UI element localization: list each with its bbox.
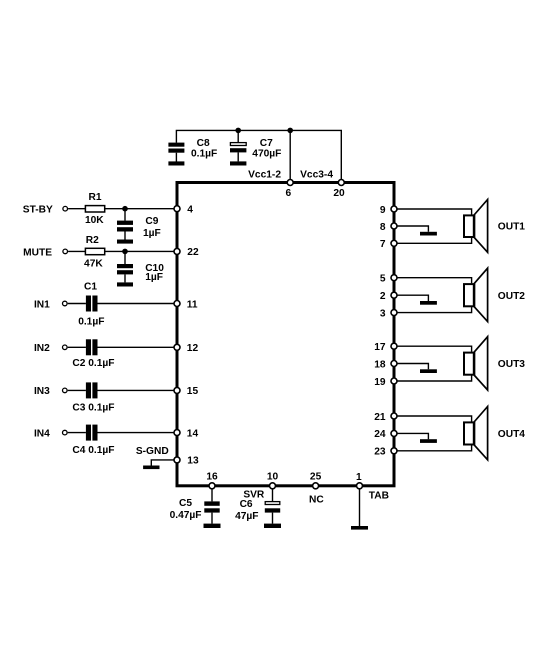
pin 15 (174, 387, 180, 393)
terminal ST-BY (63, 206, 68, 211)
svg-text:OUT4: OUT4 (498, 429, 526, 440)
svg-text:16: 16 (206, 472, 218, 483)
svg-text:2: 2 (380, 291, 386, 302)
wire pin 13 to signal ground (151, 460, 177, 466)
svg-text:470µF: 470µF (252, 149, 281, 160)
wire pin 24 to ground (394, 433, 428, 439)
svg-text:24: 24 (374, 429, 386, 440)
pin 24 (391, 430, 397, 436)
wire pin 9 to speaker top (394, 209, 472, 215)
svg-text:25: 25 (310, 472, 322, 483)
svg-text:18: 18 (374, 359, 386, 370)
wire ST-BY to R1 (68, 208, 85, 210)
capacitor C4 0.1uF (68, 425, 98, 441)
wire: Vcc top rail (176, 130, 341, 182)
svg-text:1µF: 1µF (145, 272, 163, 283)
pin 17 (391, 343, 397, 349)
svg-text:3: 3 (380, 308, 386, 319)
pin 19 (391, 378, 397, 384)
wire R2 to pin 22 (105, 250, 177, 252)
svg-text:C1: C1 (84, 282, 97, 293)
svg-text:TAB: TAB (369, 490, 389, 501)
pin 14 (174, 430, 180, 436)
capacitor C10 1uF (117, 251, 133, 282)
capacitor C1 0.1uF (68, 296, 98, 312)
speaker OUT2 driver (464, 284, 474, 306)
pin 12 (174, 344, 180, 350)
svg-text:ST-BY: ST-BY (23, 204, 53, 215)
svg-text:IN4: IN4 (34, 428, 50, 439)
svg-text:C4 0.1µF: C4 0.1µF (72, 445, 114, 456)
junction dot at pin-6 branch (287, 128, 293, 134)
resistor R1 10K (85, 206, 104, 212)
wire pin 8 to ground (394, 226, 428, 232)
svg-text:5: 5 (380, 274, 386, 285)
pin 13 (174, 457, 180, 463)
svg-text:47µF: 47µF (235, 511, 258, 522)
svg-text:Vcc1-2: Vcc1-2 (248, 170, 281, 181)
pin 6 (287, 180, 293, 186)
svg-text:22: 22 (187, 247, 199, 258)
svg-text:NC: NC (309, 495, 324, 506)
ground bar of C6 (264, 524, 281, 528)
IC U1 body (177, 183, 394, 486)
svg-text:R2: R2 (86, 235, 99, 246)
capacitor C3 0.1uF (68, 382, 98, 398)
junction node at C9 (122, 206, 128, 212)
resistor R2 47K (85, 248, 104, 254)
svg-text:21: 21 (374, 412, 386, 423)
svg-text:20: 20 (333, 188, 345, 199)
ground bar of C8 (168, 161, 184, 165)
svg-text:9: 9 (380, 205, 386, 216)
wire: C7 stub (237, 130, 239, 142)
pin 20 (338, 180, 344, 186)
svg-text:C2 0.1µF: C2 0.1µF (72, 358, 114, 369)
svg-text:C7: C7 (260, 138, 273, 149)
svg-text:10K: 10K (85, 215, 104, 226)
svg-text:11: 11 (187, 299, 198, 310)
wire pin 7 to speaker bottom (394, 238, 472, 244)
wire pin 5 to speaker top (394, 278, 472, 284)
speaker OUT1 cone (475, 200, 488, 253)
pin 11 (174, 301, 180, 307)
svg-text:47K: 47K (84, 259, 103, 270)
wire pin 23 to speaker bottom (394, 445, 472, 451)
terminal MUTE (63, 249, 68, 254)
capacitor C7 470uF electrolytic (230, 143, 246, 162)
wire C3 to pin 15 (98, 389, 178, 391)
pin 3 (391, 310, 397, 316)
svg-text:C5: C5 (179, 498, 192, 509)
wire pin 19 to speaker bottom (394, 376, 472, 382)
capacitor C6 47uF electrolytic (265, 486, 280, 524)
pin 9 (391, 206, 397, 212)
svg-text:C6: C6 (240, 499, 253, 510)
wire pin 1 to ground (359, 486, 361, 526)
capacitor C5 0.47uF (204, 486, 219, 524)
ground bar OUT2 (420, 301, 437, 305)
ground bar of C10 (117, 282, 133, 286)
ground bar OUT4 (420, 439, 437, 443)
svg-text:IN1: IN1 (34, 299, 50, 310)
speaker OUT3 driver (464, 353, 474, 375)
terminal IN1 (63, 301, 68, 306)
pin 4 (174, 206, 180, 212)
svg-text:IN2: IN2 (34, 343, 50, 354)
svg-text:OUT1: OUT1 (498, 222, 526, 233)
wire C4 to pin 14 (98, 432, 178, 434)
ground bar of C5 (204, 524, 221, 528)
capacitor C9 1uF (117, 209, 133, 240)
svg-text:MUTE: MUTE (23, 247, 52, 258)
wire pin 18 to ground (394, 364, 428, 370)
svg-text:1µF: 1µF (143, 228, 161, 239)
terminal IN3 (63, 388, 68, 393)
pin 22 (174, 248, 180, 254)
junction node at C10 (122, 249, 128, 255)
svg-text:7: 7 (380, 239, 386, 250)
wire C1 to pin 11 (98, 303, 178, 305)
speaker OUT1 driver (464, 215, 474, 237)
svg-text:C9: C9 (145, 216, 158, 227)
svg-text:8: 8 (380, 222, 386, 233)
ground bar S-GND (143, 466, 159, 470)
pin 5 (391, 275, 397, 281)
svg-text:C3 0.1µF: C3 0.1µF (72, 402, 114, 413)
capacitor C2 0.1uF (68, 339, 98, 355)
wire pin 2 to ground (394, 295, 428, 301)
ground bar TAB (351, 526, 368, 530)
svg-text:0.47µF: 0.47µF (170, 510, 202, 521)
wire C2 to pin 12 (98, 346, 178, 348)
svg-text:23: 23 (374, 447, 386, 458)
svg-text:0.1µF: 0.1µF (191, 148, 217, 159)
svg-text:OUT3: OUT3 (498, 359, 526, 370)
pin 25 NC (313, 483, 319, 489)
pin 7 (391, 240, 397, 246)
svg-text:14: 14 (187, 428, 199, 439)
wire MUTE to R2 (68, 250, 85, 252)
svg-text:OUT2: OUT2 (498, 291, 526, 302)
pin 18 (391, 361, 397, 367)
wire pin 21 to speaker top (394, 416, 472, 422)
svg-text:6: 6 (285, 188, 291, 199)
svg-text:4: 4 (187, 204, 193, 215)
svg-text:Vcc3-4: Vcc3-4 (300, 170, 333, 181)
pin 2 (391, 292, 397, 298)
svg-text:12: 12 (187, 343, 199, 354)
svg-text:0.1µF: 0.1µF (78, 316, 104, 327)
capacitor C8 0.1uF (168, 143, 184, 162)
svg-text:10: 10 (267, 472, 279, 483)
pin 21 (391, 413, 397, 419)
svg-text:15: 15 (187, 386, 199, 397)
terminal IN2 (63, 345, 68, 350)
junction dot at C7 on rail (235, 128, 241, 134)
svg-text:S-GND: S-GND (136, 446, 169, 457)
wire: branch to pin 6 (289, 130, 291, 182)
terminal IN4 (63, 430, 68, 435)
wire R1 to pin 4 (105, 208, 177, 210)
ground bar of C9 (117, 240, 133, 244)
wire pin 17 to speaker top (394, 346, 472, 352)
ground bar of C7 (230, 161, 246, 165)
speaker OUT4 cone (475, 407, 488, 460)
svg-text:19: 19 (374, 377, 386, 388)
svg-text:17: 17 (374, 342, 386, 353)
ground bar OUT1 (420, 232, 437, 236)
pin 8 (391, 223, 397, 229)
speaker OUT3 cone (475, 337, 488, 390)
ground bar OUT3 (420, 369, 437, 373)
svg-text:13: 13 (187, 456, 199, 467)
wire pin 3 to speaker bottom (394, 307, 472, 313)
pin 23 (391, 448, 397, 454)
speaker OUT4 driver (464, 422, 474, 444)
svg-text:IN3: IN3 (34, 386, 50, 397)
svg-text:R1: R1 (88, 192, 101, 203)
svg-text:1: 1 (356, 472, 362, 483)
speaker OUT2 cone (475, 268, 488, 321)
